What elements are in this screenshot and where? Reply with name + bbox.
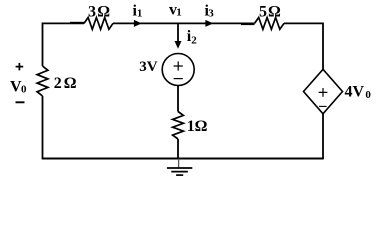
svg-text:0: 0 [21, 84, 27, 96]
wire overlap artifact right [241, 23, 255, 25]
svg-text:3: 3 [88, 3, 96, 20]
svg-text:5: 5 [259, 3, 267, 20]
svg-text:2: 2 [54, 75, 62, 92]
svg-text:3: 3 [208, 8, 214, 20]
node v1 label [169, 2, 182, 19]
ground [167, 159, 192, 176]
resistor 2ohm [37, 66, 77, 96]
wire middle branch lower [177, 139, 179, 159]
resistor 3ohm [84, 3, 113, 29]
voltage source 3V [139, 54, 194, 86]
svg-text:2: 2 [191, 34, 197, 46]
wire left lower [42, 96, 44, 159]
svg-text:0: 0 [365, 89, 371, 101]
svg-text:1: 1 [137, 8, 143, 20]
wire top-left segment [43, 22, 85, 24]
wire middle branch upper with current arrow i2 [177, 23, 179, 45]
wire left upper [42, 23, 44, 67]
current arrow i3 [205, 2, 215, 27]
current arrow i1 [133, 2, 143, 27]
svg-text:1: 1 [176, 7, 182, 19]
svg-text:3V: 3V [139, 59, 158, 75]
wire bottom [43, 158, 324, 160]
svg-text:Ω: Ω [268, 3, 281, 20]
resistor 5ohm [255, 3, 285, 29]
svg-text:Ω: Ω [64, 75, 77, 92]
wire top right-middle segment [178, 22, 254, 24]
svg-text:1: 1 [187, 118, 195, 135]
svg-text:4V: 4V [345, 83, 365, 100]
wire middle branch between source and 1ohm [177, 86, 179, 112]
wire top-left overlap artifact [70, 22, 84, 24]
resistor 1ohm [173, 112, 208, 140]
wire top middle segment [113, 22, 178, 24]
wire right upper [322, 23, 324, 70]
wire top-right segment [284, 22, 323, 24]
current arrow i2 [175, 28, 198, 49]
dependent source 4V0 [304, 69, 372, 114]
label V0 with polarity [10, 63, 27, 102]
wire right lower [322, 114, 324, 160]
svg-text:Ω: Ω [97, 3, 110, 20]
svg-text:Ω: Ω [195, 118, 208, 135]
